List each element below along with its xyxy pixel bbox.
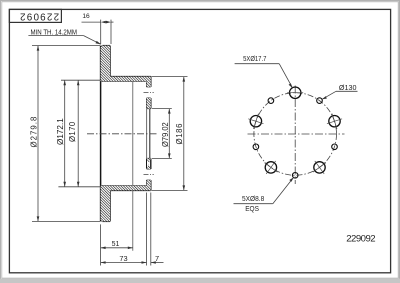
svg-text:73: 73 — [119, 254, 127, 263]
svg-text:Ø170: Ø170 — [68, 121, 77, 142]
svg-text:Ø79.02: Ø79.02 — [161, 122, 170, 147]
svg-text:51: 51 — [112, 239, 120, 248]
svg-text:Ø186: Ø186 — [175, 124, 184, 145]
svg-text:7: 7 — [155, 254, 159, 263]
svg-text:16: 16 — [82, 13, 90, 20]
svg-text:229092: 229092 — [346, 233, 375, 244]
svg-text:Ø279.8: Ø279.8 — [30, 117, 39, 148]
svg-text:5XØ17.7: 5XØ17.7 — [243, 54, 266, 63]
svg-text:229092: 229092 — [20, 11, 59, 22]
svg-text:5XØ8.8: 5XØ8.8 — [242, 194, 264, 203]
svg-text:Ø172.1: Ø172.1 — [56, 118, 65, 145]
svg-text:Ø130: Ø130 — [339, 83, 357, 92]
svg-text:EQS: EQS — [245, 204, 259, 213]
svg-text:MIN TH. 14.2MM: MIN TH. 14.2MM — [31, 27, 78, 36]
